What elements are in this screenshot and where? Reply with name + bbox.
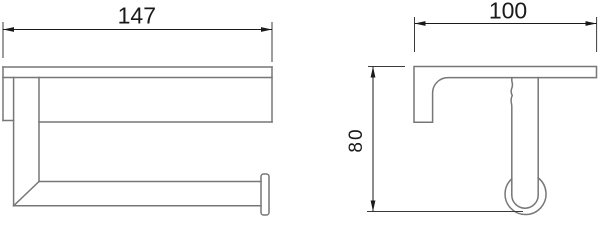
dimension 147 extension line right xyxy=(271,22,273,62)
dimension 80 top extension line xyxy=(368,66,405,68)
dimension 80 bottom extension line xyxy=(367,211,523,213)
dimension 100 right arrowhead xyxy=(586,21,597,26)
front view: wall plate bottom edge xyxy=(3,120,14,122)
dimension 80 top arrowhead xyxy=(371,67,376,78)
svg-text:147: 147 xyxy=(118,2,156,28)
dimension 100 extension line left xyxy=(414,17,416,52)
front view: bar bottom edge xyxy=(14,205,261,207)
svg-text:100: 100 xyxy=(489,0,527,23)
front view: bar top edge xyxy=(39,181,261,183)
side view: roller outer circle xyxy=(505,178,546,215)
dimension 80 dimension line xyxy=(372,67,374,212)
dimension 147 left arrowhead xyxy=(3,27,14,32)
side view: stem right edge xyxy=(537,78,539,195)
front view: arm bottom diagonal xyxy=(14,182,39,206)
front view: shelf top edge xyxy=(3,66,272,68)
front view: arm left edge xyxy=(13,78,15,206)
svg-text:80: 80 xyxy=(346,127,367,152)
dimension 147 dimension line xyxy=(3,29,272,31)
dimension 80 bottom arrowhead xyxy=(371,201,376,212)
dimension 147 extension line left xyxy=(2,22,4,58)
front view: panel bottom edge xyxy=(39,121,272,123)
dimension 100 dimension line xyxy=(415,23,597,25)
front view: shelf right edge xyxy=(271,67,273,122)
dimension 147 right arrowhead xyxy=(261,27,272,32)
front view: roller end cap xyxy=(261,174,269,215)
front view: wall plate left edge xyxy=(2,67,4,121)
side view: stem bottom semicircle xyxy=(512,195,538,208)
dimension 100 left arrowhead xyxy=(415,21,426,26)
front view: shelf bottom front edge xyxy=(3,77,272,79)
side view: bracket outline xyxy=(414,67,597,123)
front view: arm right edge xyxy=(38,78,40,182)
dimension 100 extension line right xyxy=(596,17,598,52)
side view: stem left edge with wavy break xyxy=(511,78,512,195)
